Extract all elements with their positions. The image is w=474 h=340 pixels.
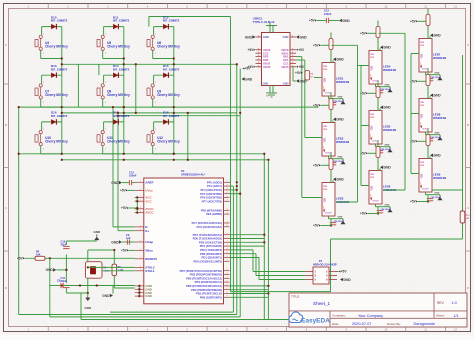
svg-text:1/1: 1/1 [454,314,459,318]
svg-text:C8: C8 [57,279,61,283]
svg-text:AVCC: AVCC [145,211,154,215]
svg-text:PF1 (ADC1): PF1 (ADC1) [207,184,222,188]
svg-text:M7_C98872: M7_C98872 [51,67,68,71]
svg-text:PF5 (ADC5/TMS): PF5 (ADC5/TMS) [200,192,222,196]
svg-text:WS2812B: WS2812B [433,56,446,60]
svg-text:M7_C98872: M7_C98872 [51,19,68,23]
svg-text:PB1 (PCINT1/SCLK): PB1 (PCINT1/SCLK) [196,292,222,296]
svg-text:PB3 (PDO/PCINT3/MISO): PB3 (PDO/PCINT3/MISO) [190,273,222,277]
svg-text:ATMEGA32U4-AU: ATMEGA32U4-AU [181,173,205,177]
svg-text:PB6 (PCINT6/OC1B/ADC13): PB6 (PCINT6/OC1B/ADC13) [186,284,222,288]
svg-text:GND: GND [245,77,253,81]
svg-text:Cherry MX Key: Cherry MX Key [45,44,68,48]
svg-text:GND: GND [435,73,440,75]
svg-text:D: D [5,286,7,290]
svg-text:GND: GND [384,166,392,170]
svg-text:VDD: VDD [422,113,424,118]
svg-text:10K: 10K [36,254,41,257]
svg-text:VCC: VCC [145,199,152,203]
svg-text:DIN: DIN [323,186,327,188]
svg-text:PD2 (RXD1/INT2): PD2 (RXD1/INT2) [200,252,222,256]
svg-text:VBUS: VBUS [263,65,271,69]
svg-text:Your Company: Your Company [358,314,383,318]
svg-text:GND: GND [283,81,289,85]
svg-text:Company:: Company: [332,314,346,318]
svg-text:PD3 (TXD1/INT3): PD3 (TXD1/INT3) [200,248,222,252]
svg-text:PF6 (ADC6/TDO): PF6 (ADC6/TDO) [200,196,222,200]
svg-text:+5V: +5V [248,65,255,69]
svg-text:GND: GND [46,268,54,272]
svg-text:22pF: 22pF [61,279,67,283]
svg-text:GND: GND [385,205,390,207]
svg-text:VDD: VDD [422,53,424,58]
svg-text:VDD: VDD [372,65,374,70]
svg-text:VBUS: VBUS [263,48,271,52]
svg-text:PD5 (XCK1/CTS#): PD5 (XCK1/CTS#) [199,240,222,244]
svg-text:C: C [467,206,469,210]
svg-text:WS2812B: WS2812B [383,68,396,72]
svg-text:+5V: +5V [313,104,320,108]
svg-text:GND: GND [337,178,345,182]
svg-text:VDD: VDD [372,185,374,190]
svg-text:GND: GND [435,133,440,135]
svg-text:B: B [5,123,7,127]
svg-text:DIN: DIN [420,42,424,44]
svg-text:+5V: +5V [313,44,320,48]
svg-text:D+: D+ [145,229,149,233]
svg-text:Sheet:: Sheet: [436,314,445,318]
svg-text:GND: GND [385,85,390,87]
svg-text:WS2812B: WS2812B [336,140,349,144]
svg-text:HDR-OG-2.54-2X3P: HDR-OG-2.54-2X3P [313,262,337,266]
svg-text:M7_C98872: M7_C98872 [51,114,68,118]
svg-text:GND: GND [338,97,343,99]
svg-text:M7_C98872: M7_C98872 [113,19,130,23]
svg-text:GND: GND [111,240,119,244]
svg-text:GND: GND [84,306,92,310]
svg-text:+5V: +5V [410,200,417,204]
svg-text:+5V: +5V [298,48,305,52]
svg-text:M7_C98872: M7_C98872 [113,114,130,118]
svg-text:GND: GND [263,35,269,39]
svg-text:VBUS: VBUS [281,48,289,52]
svg-text:GND: GND [344,278,352,282]
svg-text:+5V: +5V [313,164,320,168]
svg-text:GND: GND [385,145,390,147]
svg-text:+5V: +5V [295,71,302,75]
svg-text:DP1: DP1 [283,58,289,62]
svg-text:DIN: DIN [370,114,374,116]
svg-text:CC1: CC1 [283,62,289,66]
svg-text:D: D [467,286,469,290]
svg-text:DP2: DP2 [263,55,269,59]
svg-text:GND: GND [343,19,351,23]
svg-text:A: A [467,43,469,47]
svg-text:PC6 (OC3A/OC4A#): PC6 (OC3A/OC4A#) [196,225,222,229]
svg-text:TYPE-C-31-M-12: TYPE-C-31-M-12 [253,20,275,24]
svg-text:PB5 (PCINT5/OC1A/ADC12): PB5 (PCINT5/OC1A/ADC12) [186,276,222,280]
svg-text:+5V: +5V [121,249,128,253]
svg-text:B: B [467,123,469,127]
svg-text:PF0 (ADC0): PF0 (ADC0) [207,180,222,184]
svg-text:Cherry MX Key: Cherry MX Key [107,93,130,97]
svg-text:M7_C98872: M7_C98872 [163,67,180,71]
svg-text:Cherry MX Key: Cherry MX Key [45,93,68,97]
svg-text:UCap: UCap [145,240,153,244]
svg-text:1uF: 1uF [126,236,131,240]
svg-text:GND: GND [434,34,442,38]
svg-text:DIN: DIN [420,102,424,104]
svg-text:DIN: DIN [370,174,374,176]
svg-text:PD6 (T1/OC4D#/ADC9): PD6 (T1/OC4D#/ADC9) [193,237,222,241]
svg-text:+5V: +5V [341,270,348,274]
svg-text:C: C [5,206,7,210]
svg-text:+5V: +5V [248,48,255,52]
svg-text:+5V: +5V [120,189,127,193]
svg-text:Cherry MX Key: Cherry MX Key [107,140,130,144]
svg-text:GND: GND [300,79,308,83]
svg-text:GND: GND [283,35,289,39]
svg-text:Cherry MX Key: Cherry MX Key [157,44,180,48]
svg-text:1.0: 1.0 [452,301,457,305]
svg-text:GND: GND [338,217,343,219]
svg-text:+5V: +5V [309,19,316,23]
svg-text:CC2: CC2 [263,51,269,55]
svg-text:100nF: 100nF [324,12,332,16]
svg-text:SBU2: SBU2 [263,62,271,66]
svg-text:VBus: VBus [145,249,153,253]
svg-text:GND: GND [435,193,440,195]
svg-text:AREF: AREF [145,180,153,184]
svg-text:GND: GND [384,106,392,110]
svg-text:GND: GND [337,118,345,122]
svg-text:+5V: +5V [360,212,367,216]
svg-text:Drawn By:: Drawn By: [387,322,401,326]
svg-text:GND: GND [434,94,442,98]
svg-text:PF7 (ADC7/TDI): PF7 (ADC7/TDI) [202,199,222,203]
svg-text:DIN: DIN [370,54,374,56]
svg-text:Daragonside: Daragonside [414,322,436,326]
svg-text:Cherry MX Key: Cherry MX Key [45,140,68,144]
svg-text:Date:: Date: [332,322,339,326]
svg-text:DOUT: DOUT [373,201,380,203]
svg-text:GND: GND [300,35,308,39]
svg-text:SBU1: SBU1 [281,51,289,55]
svg-text:TITLE:: TITLE: [291,295,300,299]
svg-text:PD7 (T0/OC4D/ADC10): PD7 (T0/OC4D/ADC10) [193,233,222,237]
svg-text:UVcc: UVcc [145,189,153,193]
svg-text:REV:: REV: [437,301,444,305]
svg-text:GND: GND [338,157,343,159]
svg-text:GND: GND [384,46,392,50]
svg-text:DIN: DIN [323,126,327,128]
svg-text:DIN: DIN [420,162,424,164]
svg-text:+5V: +5V [360,32,367,36]
svg-text:+5V: +5V [121,206,128,210]
svg-text:EasyEDA: EasyEDA [301,318,330,325]
svg-text:PB2 (PDI/PCINT2/MOSI): PB2 (PDI/PCINT2/MOSI) [191,288,222,292]
svg-text:VBUS: VBUS [281,65,289,69]
svg-text:GND: GND [245,35,253,39]
svg-text:WS2812B: WS2812B [433,176,446,180]
svg-text:PB7 (PCINT7/OC0A/OC1C/RTS#): PB7 (PCINT7/OC0A/OC1C/RTS#) [180,269,222,273]
svg-text:PE2 (HWB#): PE2 (HWB#) [206,212,222,216]
svg-text:M7_C98872: M7_C98872 [163,114,180,118]
svg-text:Cherry MX Key: Cherry MX Key [107,44,130,48]
svg-text:WS2812B: WS2812B [383,128,396,132]
svg-text:GND: GND [93,230,101,234]
svg-text:+5V: +5V [410,20,417,24]
svg-text:2020-07-07: 2020-07-07 [352,322,371,326]
svg-text:+5V: +5V [17,257,24,261]
svg-text:DOUT: DOUT [423,189,430,191]
svg-text:GND: GND [434,154,442,158]
svg-text:Cherry MX Key: Cherry MX Key [157,140,180,144]
svg-text:PC7 (ICP3/CLK0/OC4A): PC7 (ICP3/CLK0/OC4A) [192,221,222,225]
svg-text:DOUT: DOUT [326,213,333,215]
svg-text:PB4 (PCINT4/ADC11): PB4 (PCINT4/ADC11) [195,280,222,284]
svg-text:WS2812B: WS2812B [336,80,349,84]
svg-text:XTAL1: XTAL1 [145,269,155,273]
svg-text:WS2812B: WS2812B [433,116,446,120]
svg-text:GND: GND [111,181,119,185]
svg-text:+5V: +5V [313,224,320,228]
svg-text:VDD: VDD [372,125,374,130]
svg-text:PB0 (SS/PCINT0): PB0 (SS/PCINT0) [200,295,222,299]
svg-text:VDD: VDD [325,137,327,142]
svg-text:M7_C98872: M7_C98872 [113,67,130,71]
svg-text:GND: GND [102,294,110,298]
svg-text:VDD: VDD [325,77,327,82]
svg-text:RESET#: RESET# [145,257,157,261]
svg-text:DN1: DN1 [283,55,289,59]
svg-text:GND: GND [263,81,269,85]
svg-text:Cherry MX Key: Cherry MX Key [157,93,180,97]
svg-text:PD0 (OC0B/SCL/INT0): PD0 (OC0B/SCL/INT0) [193,259,222,263]
svg-text:M7_C98872: M7_C98872 [163,19,180,23]
svg-text:Sheet_1: Sheet_1 [313,301,331,306]
svg-text:DN2: DN2 [263,58,269,62]
svg-text:A: A [5,43,7,47]
svg-text:PF4 (ADC4/TCK): PF4 (ADC4/TCK) [200,188,222,192]
svg-text:GND: GND [145,294,153,298]
svg-text:PE6 (INT.6/AIN0): PE6 (INT.6/AIN0) [201,208,222,212]
svg-text:100nF: 100nF [129,174,137,178]
svg-text:DIN: DIN [323,66,327,68]
svg-text:PD1 (SDA/INT1): PD1 (SDA/INT1) [202,256,223,260]
svg-text:+5V: +5V [298,65,305,69]
svg-text:GND: GND [337,58,345,62]
svg-text:VDD: VDD [422,173,424,178]
svg-text:PD4 (ICP1/ADC8): PD4 (ICP1/ADC8) [200,244,222,248]
svg-text:VDD: VDD [325,197,327,202]
